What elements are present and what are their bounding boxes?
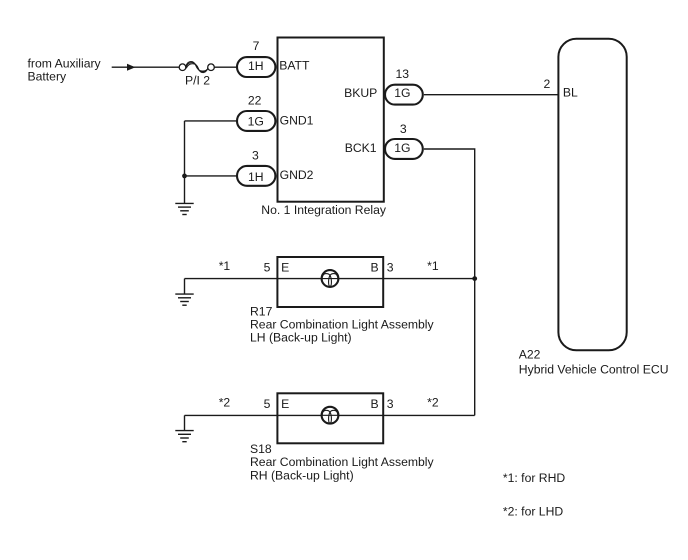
svg-text:BCK1: BCK1 [345,141,377,155]
svg-text:Rear Combination Light Assembl: Rear Combination Light Assembly [250,455,434,469]
svg-text:E: E [281,397,289,411]
svg-text:3: 3 [400,122,407,136]
svg-text:*1: *1 [427,259,439,273]
svg-text:22: 22 [248,94,262,108]
svg-text:*1: *1 [219,259,231,273]
svg-text:7: 7 [253,39,260,53]
svg-text:BKUP: BKUP [344,86,377,100]
svg-text:*2: for LHD: *2: for LHD [503,504,563,518]
svg-text:GND2: GND2 [280,168,314,182]
svg-text:1H: 1H [248,170,264,184]
svg-text:13: 13 [396,67,410,81]
svg-text:A22: A22 [519,348,541,362]
svg-text:from Auxiliary: from Auxiliary [28,56,102,70]
svg-text:E: E [281,261,289,275]
svg-text:RH (Back-up Light): RH (Back-up Light) [250,468,354,482]
svg-text:*2: *2 [427,395,439,409]
svg-text:Battery: Battery [28,69,68,83]
svg-text:B: B [371,261,379,275]
svg-text:Rear Combination Light Assembl: Rear Combination Light Assembly [250,318,434,332]
svg-text:3: 3 [252,148,259,162]
svg-text:LH (Back-up Light): LH (Back-up Light) [250,331,352,345]
svg-text:5: 5 [264,261,271,275]
svg-text:5: 5 [264,397,271,411]
svg-text:*1: for RHD: *1: for RHD [503,471,566,485]
svg-text:1G: 1G [394,86,410,100]
svg-text:1G: 1G [394,141,410,155]
svg-text:No. 1 Integration Relay: No. 1 Integration Relay [261,203,387,217]
svg-text:BATT: BATT [279,59,310,73]
svg-text:*2: *2 [219,395,231,409]
svg-text:2: 2 [544,77,551,91]
svg-text:Hybrid Vehicle Control ECU: Hybrid Vehicle Control ECU [519,362,669,376]
svg-text:3: 3 [387,261,394,275]
svg-text:GND1: GND1 [280,113,314,127]
svg-text:1G: 1G [248,115,264,129]
svg-text:B: B [371,397,379,411]
svg-text:P/I 2: P/I 2 [185,74,210,88]
svg-text:BL: BL [563,86,578,100]
svg-text:S18: S18 [250,442,272,456]
svg-text:R17: R17 [250,304,273,318]
svg-text:1H: 1H [248,59,264,73]
svg-text:3: 3 [387,397,394,411]
